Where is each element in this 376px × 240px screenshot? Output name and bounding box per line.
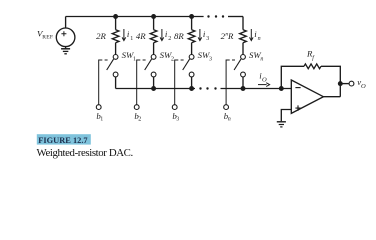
svg-text:3: 3 bbox=[206, 36, 209, 42]
svg-text:O: O bbox=[262, 76, 267, 83]
svg-text:2: 2 bbox=[171, 56, 174, 62]
svg-text:4R: 4R bbox=[136, 31, 146, 41]
svg-text:3: 3 bbox=[176, 117, 179, 123]
svg-text:Weighted-resistor DAC.: Weighted-resistor DAC. bbox=[37, 147, 133, 159]
svg-text:2: 2 bbox=[168, 36, 171, 42]
svg-text:1: 1 bbox=[100, 117, 103, 123]
svg-text:1: 1 bbox=[130, 36, 133, 42]
svg-text:2R: 2R bbox=[96, 31, 106, 41]
svg-text:REF: REF bbox=[42, 34, 53, 40]
svg-text:n: n bbox=[260, 56, 263, 62]
svg-text:O: O bbox=[361, 83, 366, 90]
svg-text:3: 3 bbox=[209, 56, 212, 62]
svg-text:FIGURE 12.7: FIGURE 12.7 bbox=[38, 136, 87, 145]
svg-text:2: 2 bbox=[138, 117, 141, 123]
svg-text:1: 1 bbox=[133, 56, 136, 62]
svg-text:n: n bbox=[258, 36, 261, 42]
svg-text:n: n bbox=[228, 117, 231, 123]
svg-text:8R: 8R bbox=[174, 31, 184, 41]
svg-text:R: R bbox=[227, 31, 234, 41]
